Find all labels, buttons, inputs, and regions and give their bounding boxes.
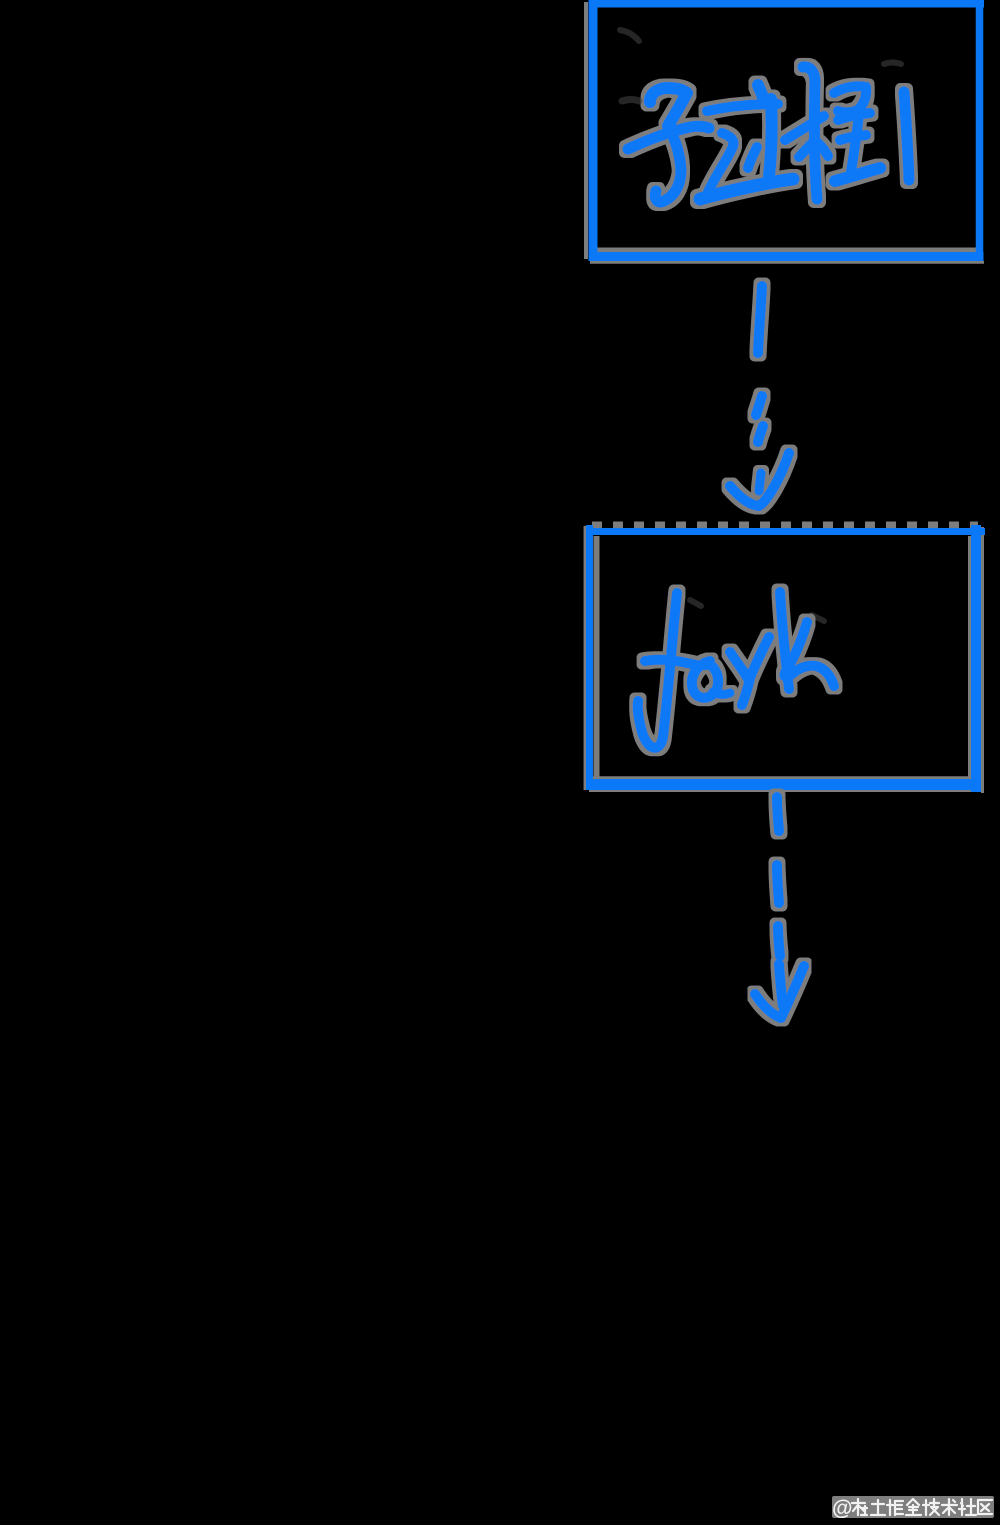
进 horizontal bbox=[707, 104, 778, 111]
arrowhead bbox=[755, 966, 804, 1018]
box B1 (child process 1 box) bbox=[586, 0, 984, 262]
进 dot bbox=[758, 85, 763, 97]
f crossbar bbox=[645, 660, 696, 665]
dash bbox=[758, 286, 762, 353]
digit 1 bbox=[904, 92, 909, 180]
label 子进程1 (handwritten) bbox=[628, 67, 909, 202]
子 stroke 3 horizontal bbox=[628, 126, 709, 149]
程 top hook bbox=[803, 67, 815, 82]
子 stroke 1 horizontal-bend bbox=[650, 88, 687, 126]
glyph 区 bbox=[978, 1500, 992, 1514]
进 S-zigzag bbox=[708, 133, 734, 192]
glyph 社 bbox=[959, 1499, 976, 1515]
程 bottom sweep bbox=[835, 168, 880, 181]
dashed arrow A2 (below fork box) bbox=[755, 797, 804, 1018]
程 vertical bbox=[814, 82, 817, 199]
f stem with hook bbox=[638, 593, 677, 748]
dash bbox=[777, 797, 779, 831]
进 bottom sweep bbox=[700, 179, 793, 199]
子 stroke 2 vertical hook bbox=[655, 126, 681, 202]
o loop bbox=[692, 661, 718, 698]
程 mouth zigzag bbox=[834, 86, 866, 112]
dash bbox=[779, 964, 783, 1006]
dashed arrow A1 (box B1 to box B2) bbox=[730, 286, 789, 506]
程 right dab bbox=[818, 143, 828, 156]
label fork (handwritten) bbox=[638, 592, 834, 748]
k stem bbox=[780, 592, 789, 689]
glyph 金 bbox=[906, 1499, 921, 1515]
glyph 术 bbox=[942, 1499, 957, 1515]
dash bbox=[778, 926, 780, 956]
r right branch and tail bbox=[742, 637, 769, 705]
box B2 (fork box) bbox=[585, 525, 985, 793]
程 cross diagonal bbox=[785, 116, 824, 140]
svg-text:@: @ bbox=[832, 1497, 852, 1520]
进 cross piece bbox=[748, 147, 757, 168]
dash bbox=[777, 865, 779, 903]
faint pen smudges bbox=[620, 30, 901, 621]
k leg bbox=[785, 622, 834, 686]
程 王 h1 bbox=[838, 113, 870, 120]
glyph 稀 bbox=[852, 1499, 867, 1515]
r left branch bbox=[730, 652, 748, 679]
程 王 vertical bbox=[851, 113, 859, 172]
dash bbox=[759, 473, 761, 491]
o exit tail bbox=[713, 692, 730, 694]
glyph 技 bbox=[923, 1499, 939, 1515]
进 right vertical bbox=[769, 99, 772, 176]
glyph 掘 bbox=[887, 1500, 903, 1515]
arrowhead bbox=[730, 453, 789, 506]
程 王 h2 bbox=[840, 135, 866, 140]
dash bbox=[756, 396, 762, 415]
watermark @稀土掘金技术社区 bbox=[832, 1496, 994, 1520]
程 left diagonal bbox=[799, 142, 813, 157]
dash bbox=[758, 426, 763, 442]
glyph 土 bbox=[871, 1500, 885, 1515]
